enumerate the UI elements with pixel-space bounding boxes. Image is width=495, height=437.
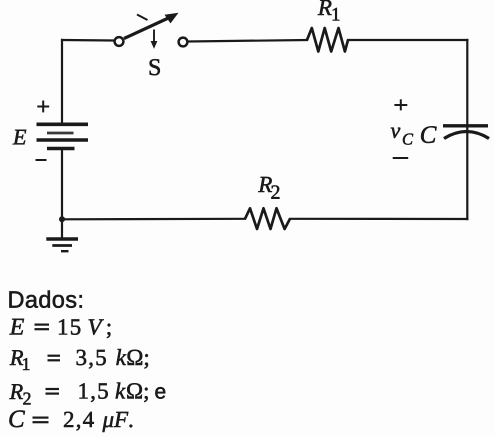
wire: switch right terminal to R1 left lead	[188, 40, 307, 42]
battery minus polarity mark	[36, 159, 47, 161]
wire: right branch through capacitor C	[466, 40, 468, 219]
wire: top-left corner to switch left terminal	[62, 39, 114, 42]
data line: R1 = 3,5 kOhm;	[10, 349, 148, 370]
R2 reference label	[258, 177, 279, 199]
node: bottom-left junction dot	[59, 216, 65, 222]
capacitor plus polarity mark	[394, 99, 407, 110]
capacitor minus polarity mark	[393, 157, 409, 159]
wire: R1 right lead to top-right corner	[348, 39, 467, 41]
data line: R2 = 1,5 kOhm; e	[9, 383, 165, 405]
data line: C = 2,4 uF.	[9, 410, 132, 431]
resistor R2	[245, 208, 290, 229]
battery label E	[13, 130, 27, 145]
data line: E = 15 V;	[9, 319, 110, 338]
data list heading "Dados:"	[9, 291, 81, 308]
capacitor voltage label vC	[391, 128, 413, 145]
capacitor C (curved-plate)	[443, 126, 489, 139]
R1 reference label	[318, 0, 340, 21]
wire: R2 left lead to bottom-left node	[62, 218, 245, 221]
wire: battery negative terminal down to bottom-left node	[61, 150, 63, 237]
switch S (open knife switch with closing arrows)	[115, 13, 188, 49]
wire: battery positive terminal up to top-left corner	[61, 40, 63, 123]
battery E (cell stack)	[37, 124, 89, 148]
ground symbol	[46, 239, 78, 251]
switch label S	[150, 59, 160, 75]
wire: bottom-right corner to R2 right lead	[290, 218, 467, 220]
battery plus polarity mark	[37, 101, 49, 113]
capacitor reference label C	[421, 126, 437, 143]
resistor R1	[307, 28, 348, 52]
